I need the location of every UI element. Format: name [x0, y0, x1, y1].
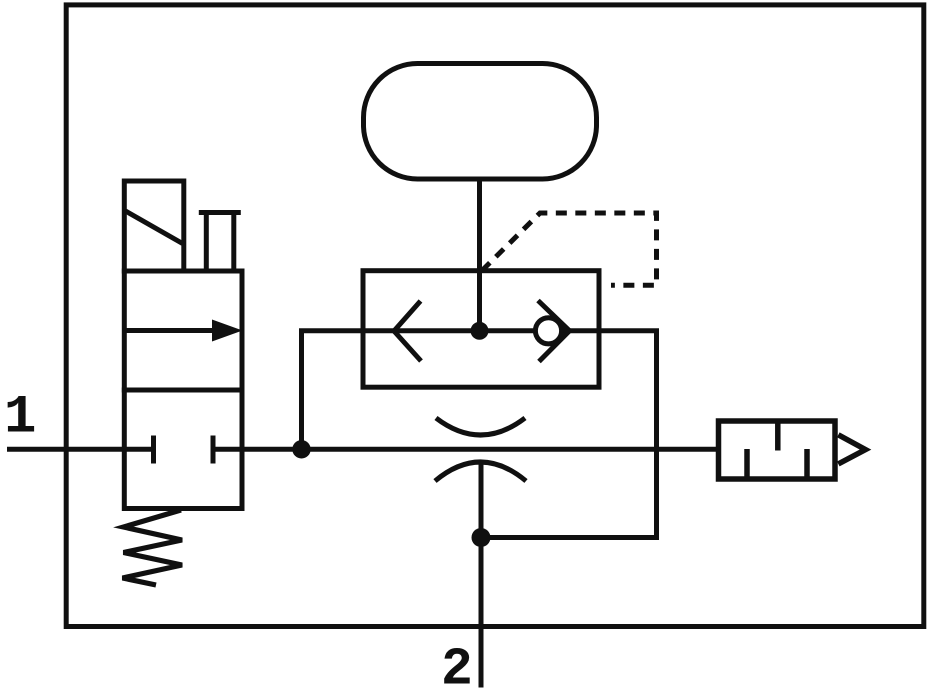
- svg-text:2: 2: [441, 640, 473, 700]
- valve body lower chamber: [124, 390, 242, 509]
- flow path arrow: [124, 328, 216, 333]
- blocked port T right: [211, 436, 216, 464]
- check valve ball: [535, 318, 561, 344]
- silencer baffle bottom right: [804, 449, 810, 479]
- silencer body: [719, 421, 836, 479]
- return spring: [123, 510, 183, 585]
- flow control valve body: [363, 271, 599, 388]
- wire: port 1 line (left segment to blocked port): [7, 447, 154, 452]
- node: junction on port 1 line: [292, 440, 310, 458]
- pilot control dashed line: [482, 213, 657, 285]
- throttle upper arc: [436, 418, 525, 435]
- actuator dome: [364, 64, 597, 180]
- wire: dome to pilot node: [477, 179, 482, 331]
- node: pilot junction: [471, 322, 489, 340]
- silencer outlet arrow: [838, 435, 865, 464]
- wire: junction to flow-control box and bypass loop: [302, 331, 657, 538]
- throttle lower arc: [435, 462, 526, 481]
- throttle flow arrow: [394, 301, 421, 361]
- blocked port T left: [151, 436, 156, 464]
- check valve seat: [538, 301, 570, 362]
- manual override: [199, 213, 241, 272]
- valve body upper chamber: [124, 271, 242, 390]
- wire: port 1 line (right segment to silencer): [213, 447, 721, 452]
- solenoid coil diagonal: [126, 211, 183, 244]
- wire: port 2: [479, 463, 484, 688]
- solenoid coil: [124, 181, 184, 271]
- silencer baffle bottom left: [744, 449, 750, 479]
- silencer baffle top: [775, 421, 781, 451]
- svg-text:1: 1: [4, 388, 36, 449]
- node: port 2 / bypass junction: [472, 528, 491, 547]
